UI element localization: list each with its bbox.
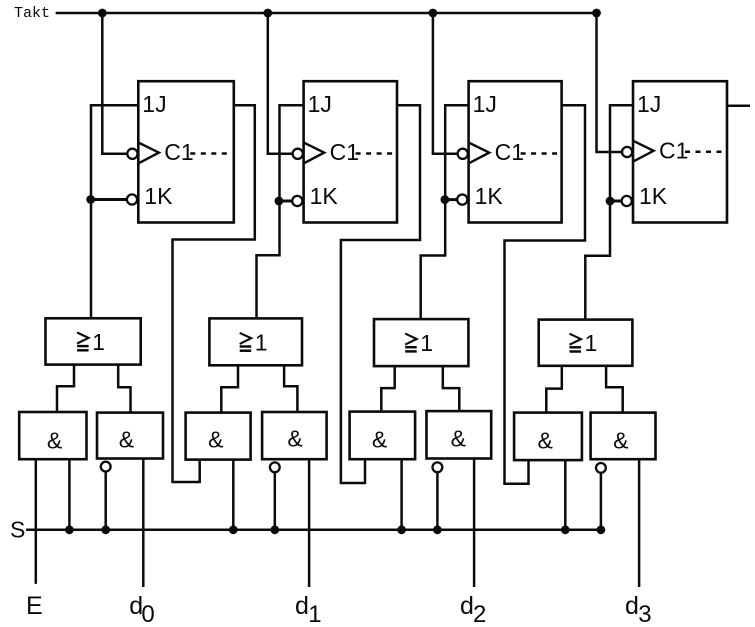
wire OR4 output to U4 1J/1K xyxy=(585,105,633,319)
G2 symbol ≧1 xyxy=(240,329,268,355)
U4 clock inversion bubble xyxy=(622,147,632,157)
U4 K inversion bubble xyxy=(622,196,632,206)
junction S-AND3a xyxy=(397,525,406,534)
svg-text:C1: C1 xyxy=(164,139,193,165)
wire AND4b inverted input from S xyxy=(600,473,603,530)
U3 clock inversion bubble xyxy=(458,149,468,159)
wire G1 right input from AND1b xyxy=(118,365,130,413)
U2 internal dashed line xyxy=(356,152,394,155)
wire AND3a input from S xyxy=(400,459,403,530)
U4 internal dashed line xyxy=(685,150,724,153)
or-gate G2 body xyxy=(209,318,302,365)
and-gate AND4a body xyxy=(514,413,582,461)
flip-flop U1 body xyxy=(138,81,234,222)
svg-text:Takt: Takt xyxy=(14,5,50,22)
wire d2 input xyxy=(473,459,476,588)
wire U2 1K stub xyxy=(279,200,293,203)
svg-text:E: E xyxy=(26,592,43,620)
and-gate AND1a body xyxy=(19,412,86,459)
svg-text:d: d xyxy=(295,592,309,620)
svg-text:1: 1 xyxy=(92,329,105,355)
flip-flop U2 body xyxy=(304,81,397,222)
junction S-AND2a xyxy=(229,525,238,534)
U1 clock inversion bubble xyxy=(127,149,137,159)
wire OR2 output to U2 1J/1K xyxy=(257,105,304,318)
AND4b inverted input bubble xyxy=(596,463,606,473)
G1 symbol ≧1 xyxy=(77,329,105,355)
U1 internal dashed line xyxy=(190,152,231,155)
U3 clock triangle xyxy=(469,143,490,164)
wire G2 left input from AND2a xyxy=(221,365,238,412)
wire Takt to U2 clock xyxy=(268,13,293,154)
svg-text:S: S xyxy=(10,516,25,542)
svg-text:C1: C1 xyxy=(495,139,524,165)
wire G4 right input from AND4b xyxy=(606,366,623,413)
flip-flop U4 body xyxy=(633,81,727,222)
U2 K inversion bubble xyxy=(292,196,302,206)
svg-text:1J: 1J xyxy=(308,91,332,117)
wire U4 Q output xyxy=(727,105,750,108)
svg-text:1J: 1J xyxy=(637,91,661,117)
or-gate G4 body xyxy=(539,320,633,366)
svg-text:1: 1 xyxy=(255,329,268,355)
U3 K inversion bubble xyxy=(457,195,467,205)
wire Takt rail xyxy=(56,12,597,15)
svg-text:1: 1 xyxy=(308,601,321,627)
svg-text:&: & xyxy=(287,426,302,452)
wire U1 Q output to AND2a input xyxy=(173,105,255,482)
svg-text:d: d xyxy=(460,592,474,620)
svg-text:1K: 1K xyxy=(144,183,173,209)
svg-text:&: & xyxy=(538,428,553,454)
wire Takt to U3 clock xyxy=(433,13,458,154)
U1 clock triangle xyxy=(138,143,159,164)
U2 clock triangle xyxy=(304,143,325,164)
wire G3 right input from AND3b xyxy=(443,366,460,411)
wire OR3 output to U3 1J/1K xyxy=(421,105,469,319)
svg-text:&: & xyxy=(613,428,628,454)
svg-text:&: & xyxy=(208,427,223,453)
U4 clock triangle xyxy=(633,141,654,162)
wire U1 1K stub xyxy=(91,198,128,201)
junction Takt-FF4 xyxy=(592,9,601,18)
and-gate AND1b body xyxy=(97,413,163,459)
svg-text:1K: 1K xyxy=(310,183,339,209)
svg-text:1K: 1K xyxy=(475,183,504,209)
AND2b inverted input bubble xyxy=(270,462,280,472)
and-gate AND2a body xyxy=(186,413,251,460)
junction S-AND1a xyxy=(65,525,74,534)
svg-text:1: 1 xyxy=(585,330,598,356)
wire OR1 output to U1 1J/1K xyxy=(91,105,138,318)
svg-text:0: 0 xyxy=(141,601,154,627)
wire AND1a input from S xyxy=(68,459,71,530)
svg-text:&: & xyxy=(372,427,387,453)
or-gate G1 body xyxy=(46,318,141,364)
wire E input to AND1a xyxy=(35,459,38,584)
junction U3 1K feed xyxy=(441,195,450,204)
wire G1 left input from AND1a xyxy=(57,365,74,412)
wire d0 input xyxy=(142,459,145,588)
wire G2 right input from AND2b xyxy=(284,365,297,412)
svg-text:&: & xyxy=(451,426,466,452)
junction S-AND2b xyxy=(270,525,279,534)
junction Takt-FF2 xyxy=(263,9,272,18)
wire G3 left input from AND3a xyxy=(381,366,394,412)
G3 symbol ≧1 xyxy=(405,330,433,356)
svg-text:d: d xyxy=(625,592,639,620)
junction S-AND3b xyxy=(433,525,442,534)
wire AND1b inverted input from S xyxy=(104,472,107,530)
svg-text:1J: 1J xyxy=(142,91,166,117)
junction Takt-FF1 xyxy=(98,9,107,18)
wire AND4a input from S xyxy=(564,460,567,530)
AND3b inverted input bubble xyxy=(433,462,443,472)
junction S-AND4a xyxy=(561,525,570,534)
G4 symbol ≧1 xyxy=(570,330,598,356)
U2 clock inversion bubble xyxy=(293,149,303,159)
and-gate AND3a body xyxy=(350,412,416,460)
wire U2 Q output to AND3a input xyxy=(341,105,420,483)
svg-text:C1: C1 xyxy=(330,139,359,165)
wire AND2a input from S xyxy=(232,460,235,530)
wire S rail xyxy=(26,529,601,532)
svg-text:C1: C1 xyxy=(659,137,688,163)
and-gate AND3b body xyxy=(427,411,492,458)
svg-text:1K: 1K xyxy=(639,183,668,209)
wire Takt to U4 clock xyxy=(597,13,622,152)
junction U4 1K feed xyxy=(606,197,615,206)
svg-text:2: 2 xyxy=(473,601,486,627)
wire d1 input xyxy=(308,459,311,587)
wire U3 Q output to AND4a input xyxy=(505,105,586,484)
U1 K inversion bubble xyxy=(127,194,137,204)
svg-text:1J: 1J xyxy=(473,91,497,117)
U3 internal dashed line xyxy=(521,152,559,155)
AND1b inverted input bubble xyxy=(101,462,111,472)
flip-flop U3 body xyxy=(469,81,562,222)
junction U2 1K feed xyxy=(275,197,284,206)
svg-text:&: & xyxy=(47,428,62,454)
wire Takt to U1 clock xyxy=(102,13,127,154)
wire G4 left input from AND4a xyxy=(546,366,562,413)
junction Takt-FF3 xyxy=(429,9,438,18)
wire AND2b inverted input from S xyxy=(274,472,277,530)
wire AND3b inverted input from S xyxy=(436,472,439,530)
svg-text:3: 3 xyxy=(638,601,651,627)
junction U1 1K feed xyxy=(86,195,95,204)
and-gate AND4b body xyxy=(591,413,656,460)
junction S-AND1b xyxy=(101,525,110,534)
or-gate G3 body xyxy=(374,319,468,366)
wire d3 input xyxy=(638,459,641,587)
svg-text:1: 1 xyxy=(420,330,433,356)
wire U4 1K stub xyxy=(610,200,622,203)
svg-text:&: & xyxy=(119,427,134,453)
and-gate AND2b body xyxy=(262,412,327,459)
wire U3 1K stub xyxy=(445,198,458,201)
junction S-AND4b xyxy=(597,525,606,534)
